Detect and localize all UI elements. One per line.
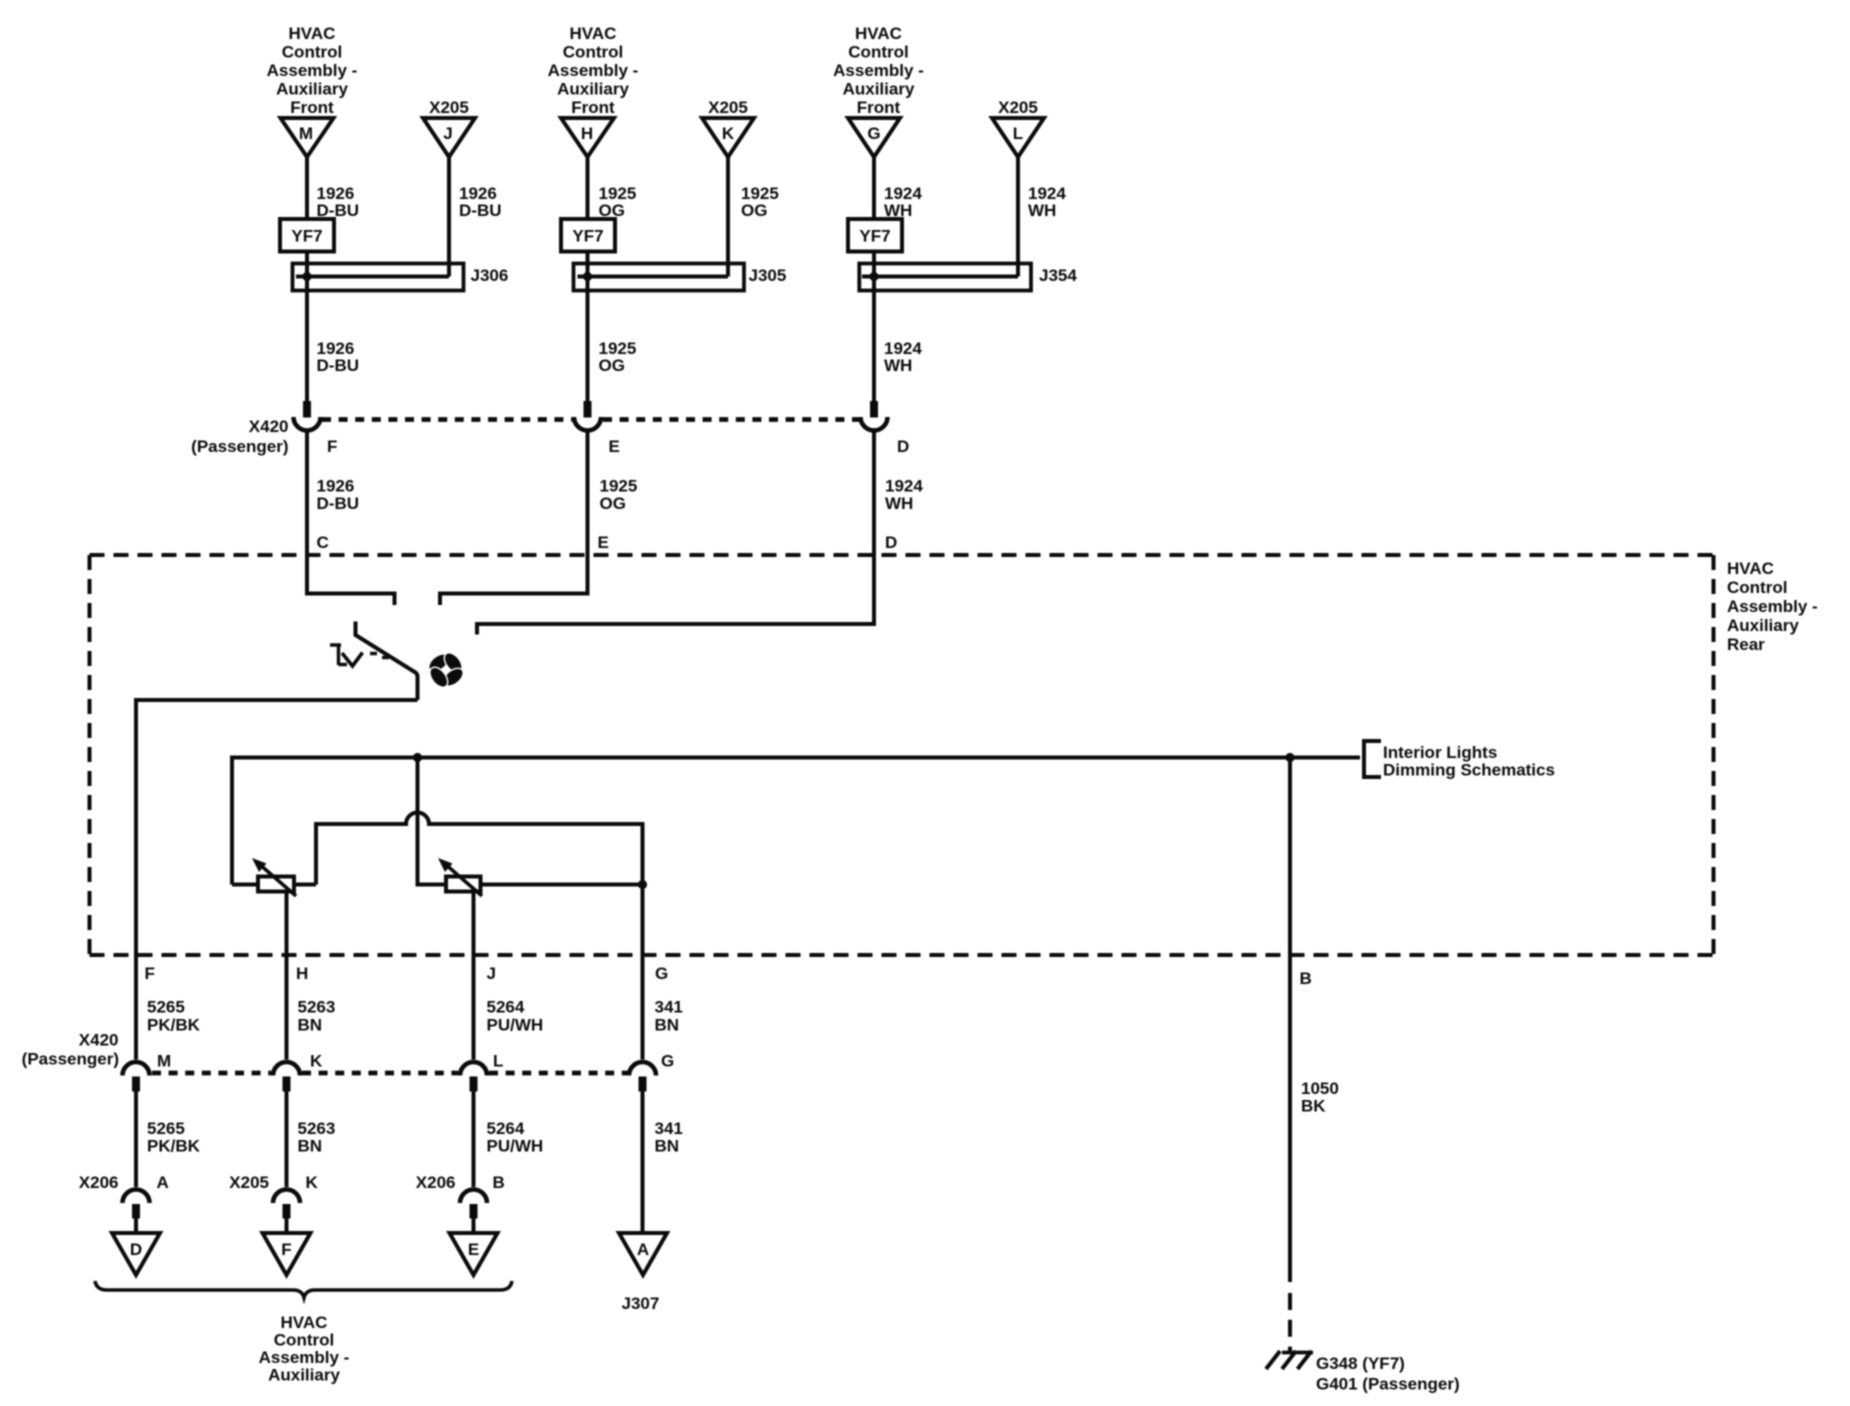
svg-text:PK/BK: PK/BK	[147, 1016, 201, 1035]
svg-text:(Passenger): (Passenger)	[191, 437, 288, 456]
wire 5264 PU/WH label	[487, 998, 544, 1035]
connector X420 pin K	[273, 1052, 323, 1092]
svg-text:1050: 1050	[1301, 1079, 1339, 1098]
svg-text:BN: BN	[655, 1137, 680, 1156]
HVAC Control Assembly - Auxiliary Rear dashed outline	[90, 553, 1714, 557]
svg-text:E: E	[468, 1240, 479, 1259]
svg-text:WH: WH	[885, 494, 913, 513]
svg-text:YF7: YF7	[291, 227, 322, 246]
svg-text:341: 341	[655, 1119, 683, 1138]
svg-text:A: A	[637, 1240, 649, 1259]
Interior Lights Dimming Schematics off-page bracket	[1364, 741, 1555, 780]
wire 1926 D-BU to X420 F	[307, 291, 359, 402]
svg-text:A: A	[157, 1173, 169, 1192]
svg-text:Control: Control	[274, 1331, 334, 1350]
wire to triangle E	[472, 1219, 476, 1234]
svg-text:X420: X420	[79, 1031, 119, 1050]
svg-text:X205: X205	[998, 98, 1038, 117]
svg-text:X205: X205	[429, 98, 469, 117]
svg-text:5265: 5265	[147, 1119, 185, 1138]
svg-text:K: K	[306, 1173, 319, 1192]
svg-text:G348 (YF7): G348 (YF7)	[1316, 1354, 1405, 1373]
pin C of rear assembly	[307, 533, 395, 605]
svg-text:HVAC: HVAC	[281, 1313, 328, 1332]
svg-text:Auxiliary: Auxiliary	[268, 1366, 340, 1385]
connector X420 pin F	[294, 401, 338, 456]
dashed harness line X420 row 1	[322, 417, 572, 422]
svg-text:J354: J354	[1039, 266, 1077, 285]
wire resistor R2 right to node	[481, 883, 643, 887]
wire 5265 PK/BK label	[147, 998, 201, 1035]
connector triangle H (HVAC Control Assembly - Auxiliary Front)	[548, 24, 639, 157]
splice J354	[859, 264, 1077, 291]
svg-text:(Passenger): (Passenger)	[22, 1050, 119, 1069]
svg-text:D-BU: D-BU	[317, 494, 360, 513]
wire 1050 BK label	[1301, 1079, 1339, 1116]
dashed harness line X420 row 2 (segment 2)	[302, 1071, 458, 1076]
wire 1924 WH from L	[1018, 157, 1066, 277]
wire 341 BN lower	[643, 1092, 683, 1234]
connector triangle E	[450, 1233, 498, 1275]
svg-text:Control: Control	[848, 43, 908, 62]
svg-text:BN: BN	[298, 1016, 323, 1035]
svg-text:D-BU: D-BU	[459, 201, 502, 220]
svg-text:1925: 1925	[600, 477, 638, 496]
pin E of rear assembly	[440, 533, 609, 605]
wire 1050 BK vertical B	[1288, 758, 1292, 1283]
svg-text:Assembly -: Assembly -	[833, 61, 924, 80]
svg-text:J: J	[443, 124, 452, 143]
wire 5263 BN label	[298, 998, 336, 1035]
wire 1050 BK dashed segment	[1288, 1293, 1292, 1352]
wire to triangle F	[285, 1219, 289, 1234]
blower switch blade	[356, 622, 418, 701]
junction node at wire B	[1285, 753, 1294, 762]
dashed harness line X420 row 2 (segment 3)	[489, 1071, 628, 1076]
svg-text:OG: OG	[599, 356, 625, 375]
svg-text:G: G	[655, 964, 668, 983]
junction node on feed wire	[413, 753, 422, 762]
svg-text:BN: BN	[655, 1016, 680, 1035]
svg-text:1924: 1924	[885, 477, 923, 496]
wire 1925 OG from K	[728, 157, 779, 277]
wire 5264 PU/WH wiper R2	[472, 892, 476, 1060]
connector X420 pin M	[123, 1052, 172, 1092]
svg-text:BK: BK	[1301, 1097, 1326, 1116]
svg-text:D: D	[897, 437, 909, 456]
svg-text:Control: Control	[282, 43, 342, 62]
svg-text:5264: 5264	[487, 998, 525, 1017]
svg-text:F: F	[327, 437, 337, 456]
svg-text:Auxiliary: Auxiliary	[1727, 616, 1799, 635]
svg-text:C: C	[317, 533, 329, 552]
svg-text:Assembly -: Assembly -	[267, 61, 358, 80]
svg-text:Control: Control	[1727, 578, 1787, 597]
connector X420 (Passenger) row 1 label	[191, 417, 288, 456]
connector triangle L (X205)	[992, 98, 1044, 157]
dashed harness line X420 row 1 (segment 2)	[603, 417, 859, 422]
svg-text:Dimming Schematics: Dimming Schematics	[1383, 761, 1555, 780]
connector X420 pin G	[629, 1052, 674, 1092]
svg-text:Assembly -: Assembly -	[259, 1348, 350, 1367]
brace HVAC Control Assembly - Auxiliary	[95, 1281, 512, 1298]
option box YF7 (group 2)	[561, 219, 615, 252]
svg-text:341: 341	[655, 998, 683, 1017]
HVAC rear dashed outline right edge	[1712, 555, 1716, 955]
svg-text:M: M	[299, 124, 313, 143]
connector X420 (Passenger) row 2 label	[22, 1031, 119, 1069]
svg-text:Auxiliary: Auxiliary	[557, 80, 629, 99]
svg-text:WH: WH	[884, 356, 912, 375]
connector X206 pin B	[416, 1173, 505, 1219]
pin D of rear assembly	[477, 533, 897, 635]
wire from junction to resistor R2	[418, 758, 447, 885]
HVAC rear dashed outline left edge	[88, 555, 92, 955]
wire 1924 WH to X420 D	[874, 291, 922, 402]
connector X206 pin A	[79, 1173, 169, 1219]
blower switch actuator icon	[330, 644, 389, 666]
splice J305	[574, 264, 787, 291]
svg-text:Front: Front	[857, 98, 901, 117]
option box YF7 (group 3)	[848, 219, 902, 252]
svg-text:L: L	[493, 1052, 503, 1071]
ground G348/G401	[1266, 1351, 1460, 1394]
svg-text:OG: OG	[741, 201, 767, 220]
svg-text:E: E	[609, 437, 620, 456]
svg-text:OG: OG	[600, 494, 626, 513]
svg-text:J307: J307	[622, 1294, 660, 1313]
svg-text:Auxiliary: Auxiliary	[276, 80, 348, 99]
svg-text:WH: WH	[1028, 201, 1056, 220]
wire 1925 OG below X420 E	[588, 431, 638, 556]
svg-text:PK/BK: PK/BK	[147, 1137, 201, 1156]
variable resistor R2	[438, 858, 482, 896]
wire 5265 PK/BK lower	[136, 1092, 201, 1188]
svg-text:J: J	[487, 964, 496, 983]
svg-text:D-BU: D-BU	[317, 356, 360, 375]
svg-text:YF7: YF7	[572, 227, 603, 246]
wire to resistor R1 left	[232, 883, 258, 887]
connector triangle A	[619, 1233, 667, 1275]
wire to triangle D	[134, 1219, 138, 1234]
svg-text:Assembly -: Assembly -	[548, 61, 639, 80]
svg-text:HVAC: HVAC	[1727, 559, 1774, 578]
svg-text:5263: 5263	[298, 998, 336, 1017]
svg-text:F: F	[145, 964, 155, 983]
svg-text:Front: Front	[571, 98, 615, 117]
wire 1926 D-BU from J	[449, 157, 502, 277]
svg-text:F: F	[281, 1240, 291, 1259]
wire 5263 BN lower	[287, 1092, 336, 1188]
svg-text:L: L	[1013, 124, 1023, 143]
connector X205 pin K	[229, 1173, 318, 1219]
svg-text:E: E	[598, 533, 609, 552]
junction node wire G	[638, 880, 647, 889]
HVAC Control Assembly - Auxiliary Rear label	[1727, 559, 1818, 654]
svg-text:X206: X206	[416, 1173, 456, 1192]
wire 1926 D-BU below X420 F	[307, 431, 359, 556]
svg-text:5264: 5264	[487, 1119, 525, 1138]
svg-text:K: K	[722, 124, 735, 143]
variable resistor R1	[252, 858, 296, 896]
option box YF7 (group 1)	[280, 219, 334, 252]
wire resistor R1 right	[294, 883, 316, 887]
svg-text:HVAC: HVAC	[570, 24, 617, 43]
svg-text:G401 (Passenger): G401 (Passenger)	[1316, 1375, 1460, 1394]
svg-text:B: B	[1300, 969, 1312, 988]
svg-text:X206: X206	[79, 1173, 119, 1192]
svg-text:PU/WH: PU/WH	[487, 1137, 544, 1156]
svg-text:H: H	[581, 124, 593, 143]
svg-text:J306: J306	[471, 266, 509, 285]
wire 341 BN label	[655, 998, 683, 1035]
svg-text:X205: X205	[229, 1173, 269, 1192]
blower fan symbol	[426, 650, 467, 691]
wire 1926 D-BU from M	[307, 157, 359, 401]
svg-text:YF7: YF7	[859, 227, 890, 246]
connector triangle G (HVAC Control Assembly - Auxiliary Front)	[833, 24, 924, 157]
wire 5263 BN wiper R1	[285, 892, 289, 1060]
connector triangle D	[112, 1233, 160, 1275]
svg-text:X205: X205	[708, 98, 748, 117]
connector X420 pin E	[574, 401, 620, 456]
wire 1925 OG from H	[588, 157, 637, 401]
connector triangle F	[263, 1233, 311, 1275]
HVAC Control Assembly - Auxiliary label	[259, 1313, 350, 1385]
svg-text:B: B	[493, 1173, 505, 1192]
svg-text:Control: Control	[563, 43, 623, 62]
connector triangle K (X205)	[702, 98, 754, 157]
wire 341 BN from node	[641, 885, 645, 1060]
interior lights feed wire	[232, 758, 1360, 885]
wire 1924 WH from G	[874, 157, 922, 401]
svg-text:H: H	[296, 964, 308, 983]
svg-text:HVAC: HVAC	[855, 24, 902, 43]
connector X420 pin D	[861, 401, 910, 456]
svg-text:D: D	[885, 533, 897, 552]
HVAC rear dashed outline bottom edge	[90, 953, 1714, 957]
svg-text:G: G	[867, 124, 880, 143]
connector X420 pin L	[460, 1052, 503, 1092]
dashed harness line X420 row 2	[152, 1071, 271, 1076]
svg-text:HVAC: HVAC	[289, 24, 336, 43]
svg-text:M: M	[157, 1052, 171, 1071]
connector triangle M (HVAC Control Assembly - Auxiliary Front)	[267, 24, 358, 157]
wire 1925 OG to X420 E	[588, 291, 637, 402]
svg-text:K: K	[310, 1052, 323, 1071]
svg-text:X420: X420	[249, 417, 289, 436]
svg-text:1926: 1926	[317, 477, 355, 496]
wire from switch to pin F	[136, 700, 418, 1060]
resistor bus wire with hop	[316, 813, 643, 885]
svg-text:BN: BN	[298, 1137, 323, 1156]
svg-text:5265: 5265	[147, 998, 185, 1017]
svg-text:J305: J305	[749, 266, 787, 285]
connector triangle J (X205)	[423, 98, 475, 157]
wire 5264 PU/WH lower	[474, 1092, 544, 1188]
svg-text:Interior Lights: Interior Lights	[1383, 743, 1497, 762]
splice J306	[293, 264, 509, 291]
svg-text:D: D	[130, 1240, 142, 1259]
svg-text:5263: 5263	[298, 1119, 336, 1138]
wire 1924 WH below X420 D	[874, 431, 923, 556]
svg-text:Rear: Rear	[1727, 635, 1765, 654]
svg-text:G: G	[661, 1052, 674, 1071]
svg-text:PU/WH: PU/WH	[487, 1016, 544, 1035]
svg-text:Auxiliary: Auxiliary	[843, 80, 915, 99]
svg-text:Front: Front	[290, 98, 334, 117]
svg-text:Assembly -: Assembly -	[1727, 597, 1818, 616]
